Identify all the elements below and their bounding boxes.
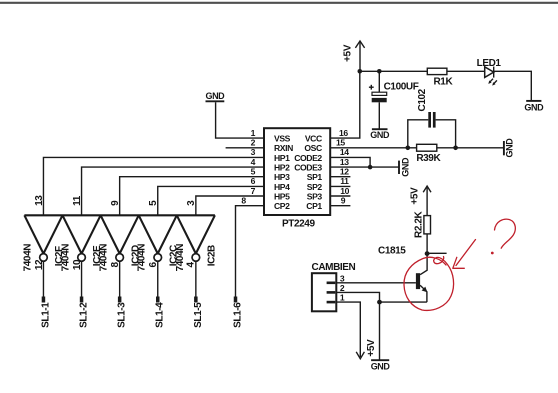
+5V supply arrow (top)	[343, 41, 365, 71]
svg-text:+5V: +5V	[366, 339, 377, 357]
terminal SL1-1	[42, 297, 46, 303]
wire: IC2D output to SL1-3	[119, 261, 121, 297]
wire: pin 2 RXIN stub	[226, 147, 264, 149]
wire: pin 12 SP1 stub	[330, 176, 351, 178]
wire: pin 5 HP3 to IC2D input	[120, 177, 264, 216]
wire: C102 parallel loop left	[408, 120, 429, 148]
svg-text:CP1: CP1	[306, 201, 322, 211]
svg-text:SP3: SP3	[307, 191, 323, 201]
wire: pin 3 HP1 to IC2F input	[43, 157, 264, 215]
wire: emitter to junction	[380, 301, 427, 303]
svg-text:6: 6	[251, 176, 256, 186]
inverter IC2B (7404N)	[177, 215, 215, 261]
svg-text:CP2: CP2	[274, 201, 290, 211]
terminal SL1-4	[156, 297, 160, 303]
svg-text:SL1-1: SL1-1	[40, 302, 51, 328]
svg-text:12: 12	[340, 167, 349, 177]
svg-text:7: 7	[251, 186, 256, 196]
svg-text:SL1-3: SL1-3	[117, 302, 128, 328]
svg-text:C1815: C1815	[378, 245, 406, 256]
svg-text:HP2: HP2	[274, 163, 290, 173]
wire: pin 8 CP2 to terminal SL1-6	[236, 206, 265, 297]
svg-text:HP1: HP1	[274, 153, 290, 163]
svg-text:15: 15	[336, 138, 345, 148]
svg-text:9: 9	[110, 200, 121, 206]
resistor R2.2K	[413, 210, 430, 238]
svg-text:GND: GND	[205, 91, 225, 101]
svg-text:7404N: 7404N	[175, 244, 186, 272]
wire: pin 14 CODE2 down to pin 13	[330, 157, 370, 167]
svg-text:7404N: 7404N	[60, 244, 71, 272]
svg-text:GND: GND	[370, 130, 390, 140]
svg-text:13: 13	[34, 195, 45, 206]
wire: C100UF to GND	[378, 102, 380, 128]
wire: pin 7 HP5 to IC2B input	[196, 196, 264, 215]
annotation: red arrow	[453, 240, 476, 269]
wire: +5V rail to R1K	[360, 70, 427, 72]
svg-text:5: 5	[148, 200, 159, 206]
wire: pin 13 CODE3 to GND	[330, 166, 399, 168]
svg-text:10: 10	[340, 186, 349, 196]
svg-text:GND: GND	[371, 362, 391, 372]
svg-text:7404N: 7404N	[137, 244, 148, 272]
svg-text:C102: C102	[417, 88, 428, 111]
svg-text:RXIN: RXIN	[274, 143, 293, 153]
IC1 left pin numbers	[241, 128, 255, 206]
capacitor C100UF	[369, 82, 419, 103]
inverter IC2D (7404N)	[101, 215, 139, 261]
wire: LED1 to GND	[494, 71, 532, 100]
+5V supply arrow (down, CAMBIEN)	[356, 339, 377, 359]
annotation: red question mark	[491, 219, 515, 254]
wire: CAMBIEN pin 1 to +5V (down)	[336, 302, 360, 357]
inverter IC2F (7404N)	[24, 215, 62, 261]
svg-text:2: 2	[340, 283, 345, 293]
+5V supply arrow (R2.2K)	[409, 186, 431, 216]
junction: CODE2/CODE3	[368, 165, 373, 170]
svg-text:IC2B: IC2B	[206, 245, 217, 266]
svg-text:3: 3	[186, 200, 197, 206]
svg-text:R39K: R39K	[416, 153, 441, 164]
IC1 left pin names	[274, 134, 293, 212]
svg-text:R2.2K: R2.2K	[413, 210, 424, 238]
junction: OSC left node	[406, 146, 411, 151]
inverter row top rail	[24, 214, 215, 216]
junction: pin2/emitter node	[377, 300, 382, 305]
terminal SL1-6	[234, 297, 238, 303]
svg-text:5: 5	[251, 167, 256, 177]
svg-text:CODE2: CODE2	[294, 153, 322, 163]
svg-text:C100UF: C100UF	[384, 82, 419, 93]
svg-text:GND: GND	[524, 102, 544, 112]
svg-text:13: 13	[340, 157, 349, 167]
svg-text:9: 9	[341, 196, 346, 206]
svg-text:SL1-5: SL1-5	[193, 302, 204, 328]
wire: collector node stub	[428, 252, 447, 254]
svg-text:8: 8	[241, 196, 246, 206]
wire: pin 10 SP3 stub	[330, 195, 351, 197]
svg-text:2: 2	[251, 138, 256, 148]
wire: pin 4 HP2 to IC2E input	[82, 167, 264, 215]
svg-text:1: 1	[340, 293, 345, 303]
svg-text:LED1: LED1	[477, 58, 502, 69]
svg-text:4: 4	[251, 157, 256, 167]
wire: CAMBIEN pin 3 to Q1 base	[336, 282, 416, 284]
wire: pin 11 SP2 stub	[330, 185, 351, 187]
junction: +5V / pin16	[358, 69, 363, 74]
wire: pin 15 OSC to GND (right)	[330, 147, 504, 149]
svg-text:16: 16	[339, 128, 348, 138]
IC IC1 PT2249 body	[264, 128, 330, 229]
svg-text:3: 3	[251, 147, 256, 157]
wire: GND to pin 1 VSS	[216, 102, 264, 138]
wire: rail to C100UF	[378, 71, 380, 92]
junction: C100UF tap	[377, 69, 382, 74]
ground GND (CAMBIEN net)	[371, 360, 391, 371]
svg-text:SL1-6: SL1-6	[233, 302, 244, 328]
svg-text:R1K: R1K	[433, 76, 453, 87]
wire: R1K to LED1	[447, 70, 485, 72]
wire: pin 16 VCC to +5V	[330, 71, 360, 138]
capacitor C102	[417, 88, 436, 127]
junction: collector node	[425, 251, 430, 256]
svg-text:CAMBIEN: CAMBIEN	[312, 262, 356, 273]
svg-text:HP3: HP3	[274, 172, 290, 182]
inverter IC2E (7404N)	[63, 215, 101, 261]
resistor R39K	[416, 144, 441, 164]
annotation: red circle around Q1	[404, 257, 454, 311]
svg-text:14: 14	[340, 147, 349, 157]
svg-text:+5V: +5V	[409, 187, 420, 205]
svg-text:GND: GND	[400, 157, 410, 177]
ground symbol (rotated, OSC net)	[504, 138, 515, 158]
wire: IC2C output to SL1-4	[157, 261, 159, 297]
svg-text:OSC: OSC	[304, 143, 322, 153]
svg-text:GND: GND	[505, 138, 515, 158]
ground GND (top, IC pin 1)	[205, 91, 225, 101]
LED LED1	[477, 58, 502, 86]
svg-text:4: 4	[185, 262, 196, 268]
ground GND (LED1)	[524, 101, 544, 113]
terminal SL1-5	[194, 297, 198, 303]
svg-text:SP1: SP1	[307, 172, 323, 182]
junction: OSC right node	[453, 146, 458, 151]
resistor R1 (R1K)	[427, 68, 453, 87]
inverter IC2C (7404N)	[139, 215, 177, 261]
terminal SL1-2	[80, 297, 84, 303]
wire: CAMBIEN pin 2 down to GND	[336, 292, 379, 359]
svg-text:1: 1	[251, 128, 256, 138]
svg-text:7404N: 7404N	[99, 244, 110, 272]
ground symbol (rotated, CODE3 net)	[399, 157, 410, 177]
terminal SL1-3	[118, 297, 122, 303]
svg-text:HP5: HP5	[274, 191, 290, 201]
wire: pin 9 CP1 stub	[330, 205, 351, 207]
ground GND (C100UF)	[370, 129, 390, 140]
wire: C102 parallel loop right	[436, 120, 456, 148]
transistor Q1 C1815	[378, 245, 427, 302]
svg-text:PT2249: PT2249	[282, 219, 315, 230]
wire: IC2F output to SL1-1	[42, 261, 44, 297]
svg-text:3: 3	[340, 273, 345, 283]
wire: IC2E output to SL1-2	[81, 261, 83, 297]
IC1 right pin names	[294, 134, 322, 212]
wire: R2.2K to collector node	[426, 234, 428, 254]
svg-text:+5V: +5V	[343, 44, 354, 62]
IC1 right pin numbers	[336, 128, 350, 206]
svg-text:11: 11	[72, 195, 83, 206]
svg-text:CODE3: CODE3	[294, 163, 322, 173]
svg-text:11: 11	[340, 176, 349, 186]
svg-text:SP2: SP2	[307, 182, 323, 192]
svg-text:7404N: 7404N	[22, 244, 33, 272]
svg-text:VSS: VSS	[274, 134, 291, 144]
svg-text:SL1-2: SL1-2	[78, 302, 89, 328]
wire: IC2B output to SL1-5	[195, 261, 197, 297]
connector CAMBIEN	[312, 262, 356, 311]
svg-text:HP4: HP4	[274, 182, 290, 192]
wire: pin 6 HP4 to IC2C input	[158, 186, 264, 215]
svg-text:SL1-4: SL1-4	[155, 302, 166, 328]
svg-text:VCC: VCC	[305, 134, 322, 144]
